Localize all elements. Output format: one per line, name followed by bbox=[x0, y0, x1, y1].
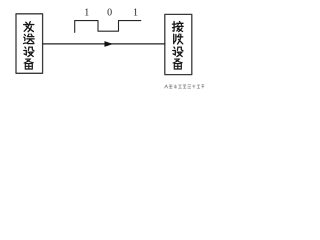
char 备 bbox=[24, 59, 33, 69]
char 设 (right) bbox=[173, 47, 183, 57]
svg-text:1: 1 bbox=[84, 8, 89, 19]
char 备 (right) bbox=[173, 59, 182, 69]
char 接 bbox=[173, 21, 184, 31]
wire bbox=[43, 43, 165, 45]
char 发 bbox=[24, 22, 34, 32]
arrowhead bbox=[105, 42, 113, 47]
char 设 bbox=[24, 47, 34, 57]
char 收 bbox=[174, 34, 183, 44]
watermark bbox=[164, 85, 204, 89]
svg-text:0: 0 bbox=[107, 8, 112, 19]
char 送 bbox=[24, 34, 35, 44]
receiver box (接收设备) bbox=[165, 14, 192, 74]
waveform bbox=[75, 21, 141, 33]
sender box (发送设备) bbox=[16, 14, 43, 74]
svg-text:1: 1 bbox=[133, 8, 138, 19]
